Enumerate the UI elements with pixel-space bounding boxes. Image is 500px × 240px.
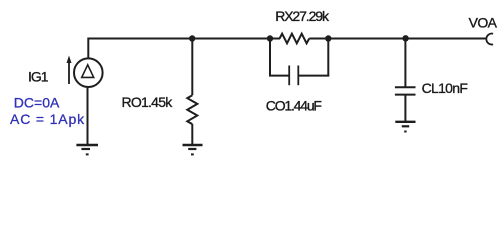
svg-text:AC = 1Apk: AC = 1Apk [10,111,85,127]
svg-text:RO1.45k: RO1.45k [122,94,174,110]
svg-text:IG1: IG1 [28,68,49,84]
svg-text:RX27.29k: RX27.29k [275,8,330,24]
svg-text:DC=0A: DC=0A [14,94,60,110]
svg-text:CL10nF: CL10nF [422,80,468,96]
svg-text:CO1.44uF: CO1.44uF [266,98,322,114]
svg-text:VOA: VOA [469,15,498,31]
